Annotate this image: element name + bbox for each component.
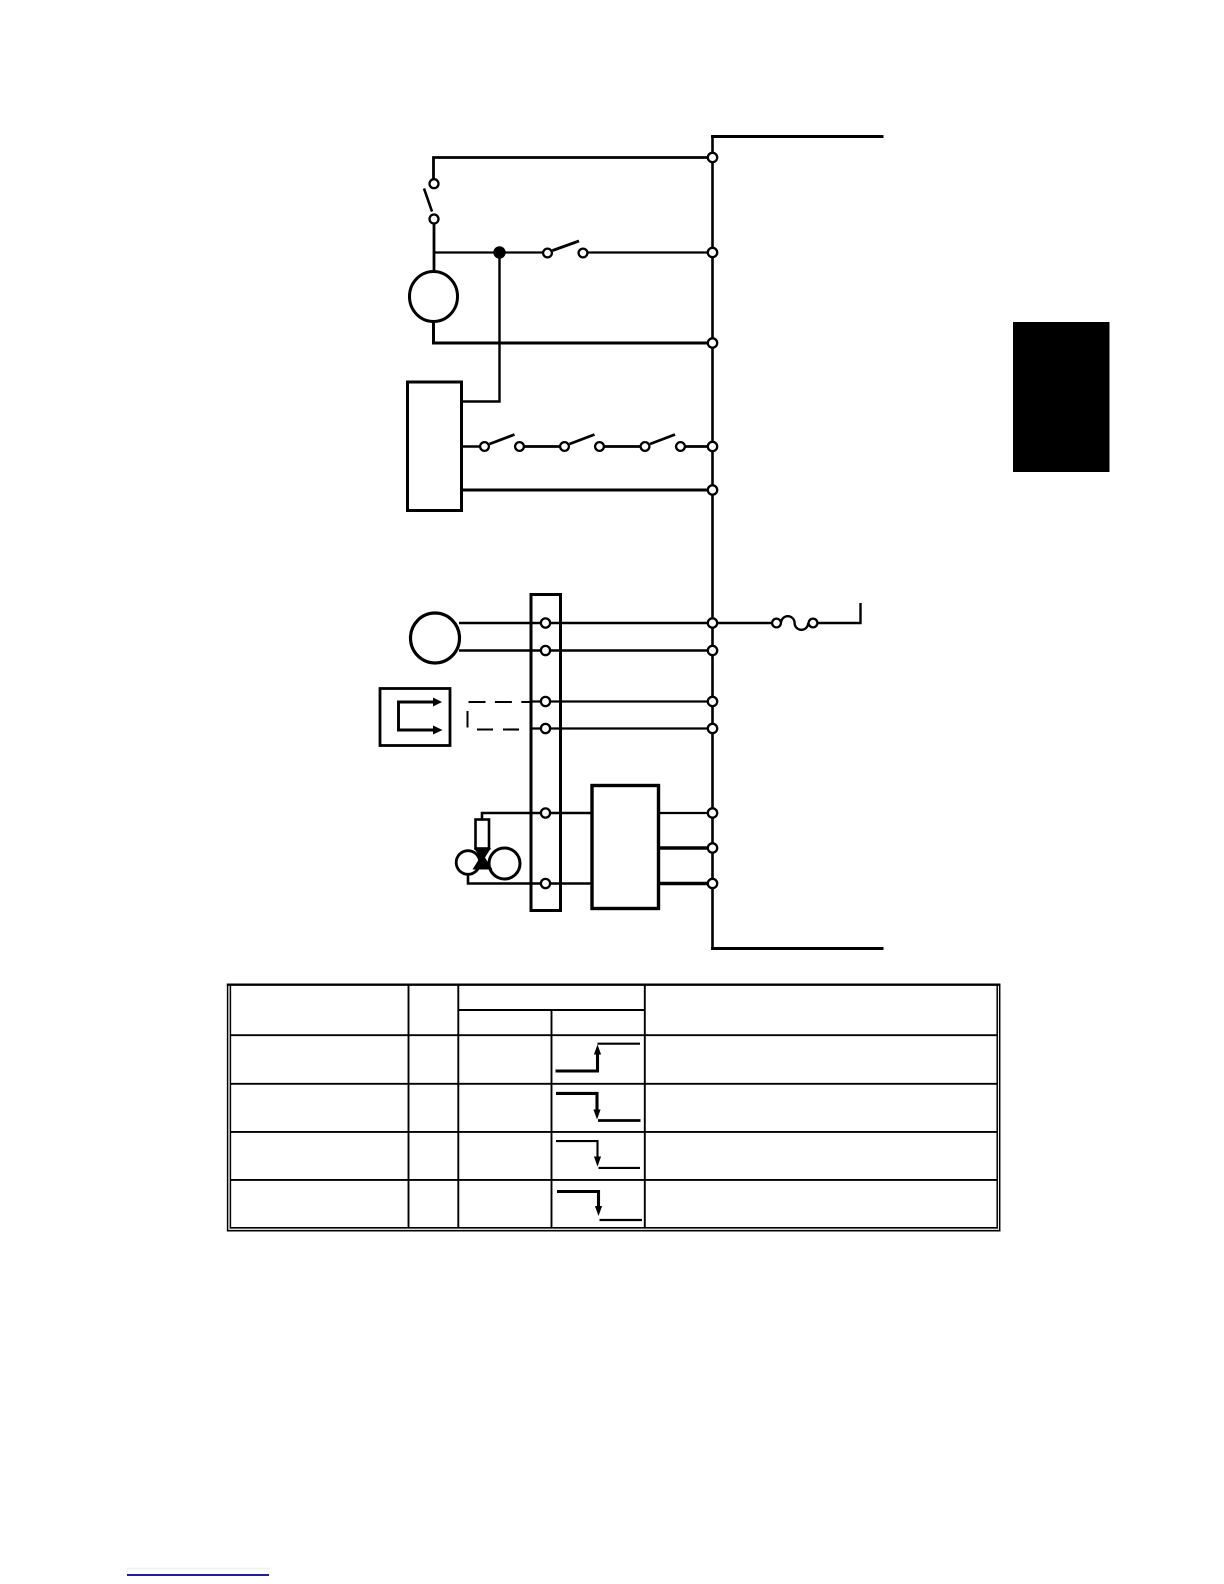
switch S2 contact left	[543, 249, 552, 258]
node bus terminal 8	[708, 697, 717, 706]
switch S3c contact right	[676, 442, 685, 451]
wire motor upper lead with fuse feed	[459, 622, 773, 625]
switch S3b contact left	[560, 442, 569, 451]
node bus terminal 3	[708, 338, 717, 347]
wire B1 bottom to bus	[462, 489, 713, 492]
direction indicator box	[380, 689, 450, 746]
switch S3b contact right	[595, 442, 604, 451]
direction indicator arrows	[399, 702, 435, 730]
wire S3a to S3b	[524, 445, 560, 448]
terminal TB-6	[541, 879, 550, 888]
switch S3a contact right	[515, 442, 524, 451]
table subheader line	[458, 1009, 645, 1011]
wire junction row right	[588, 251, 713, 253]
waveform falling edge row 2	[556, 1093, 597, 1110]
node bus terminal 11	[708, 843, 717, 852]
table row line 2	[230, 1083, 997, 1085]
wire sensor lower to bus	[531, 727, 713, 729]
pump right gear circle	[489, 848, 520, 879]
wire lamp top feed	[434, 158, 713, 179]
node bus terminal 1	[708, 153, 717, 162]
fuse F1 squiggle	[781, 616, 808, 630]
wire fuse to stub	[818, 603, 861, 623]
switch S1 blade	[424, 189, 432, 212]
node bus terminal 2	[708, 248, 717, 257]
wire sensor upper to bus	[531, 700, 713, 702]
box B2	[592, 786, 659, 909]
footer faint rule	[127, 1567, 270, 1569]
wire motor lower lead	[459, 649, 713, 652]
fuse F1 contact right	[809, 619, 818, 628]
wire pump top feed	[482, 813, 592, 820]
table left border outer	[227, 984, 229, 1232]
wire B2 out 2	[659, 846, 713, 849]
table bottom border outer	[227, 1230, 1001, 1232]
node bus terminal 4	[708, 442, 717, 451]
switch S1 contact top	[430, 179, 439, 188]
node bus terminal 6	[708, 618, 717, 627]
box B1	[408, 382, 462, 511]
switch S3c blade	[650, 435, 675, 445]
pump left gear circle	[456, 851, 480, 875]
wire junction row left	[434, 251, 544, 253]
pump valve cone lower	[473, 854, 493, 870]
fuse F1 contact left	[772, 619, 781, 628]
node bus terminal 5	[708, 485, 717, 494]
pump valve cone upper	[474, 848, 491, 862]
node bus terminal 7	[708, 646, 717, 655]
wire B2 out 1	[659, 812, 713, 814]
waveform rising edge row 1	[556, 1053, 598, 1071]
wire controller bottom edge	[713, 947, 884, 949]
table right border outer	[999, 984, 1001, 1232]
table right border inner	[996, 984, 998, 1229]
wire B1 to switch row	[462, 445, 481, 447]
table bottom border inner	[230, 1227, 998, 1229]
terminal TB-1	[541, 618, 550, 627]
terminal strip TB	[531, 595, 561, 911]
switch S3b blade	[570, 435, 595, 445]
node junction dot	[493, 246, 505, 258]
lamp L1	[410, 272, 458, 322]
wire controller top edge	[713, 137, 884, 139]
wire S3c to bus	[685, 445, 713, 448]
table column line 1	[408, 985, 410, 1228]
pump cylinder	[476, 820, 490, 849]
waveform falling edge row 3	[556, 1141, 598, 1157]
table row line 4	[230, 1179, 997, 1181]
footer link underline	[127, 1574, 269, 1576]
table left border inner	[229, 984, 231, 1229]
terminal TB-2	[541, 646, 550, 655]
node bus terminal 10	[708, 808, 717, 817]
dashed linkage top	[469, 701, 532, 703]
wire pump bottom return	[468, 875, 592, 884]
switch S2 blade	[553, 241, 580, 251]
switch S3c contact left	[641, 442, 650, 451]
node bus terminal 12	[708, 879, 717, 888]
table column line 4	[644, 985, 646, 1228]
wire main bus vertical	[711, 137, 714, 949]
dashed linkage bottom	[477, 728, 526, 730]
black index tab	[1013, 322, 1110, 472]
waveform falling edge row 4	[557, 1192, 599, 1207]
switch S3a blade	[490, 435, 515, 445]
terminal TB-3	[541, 697, 550, 706]
wire S1 to lamp	[433, 224, 436, 274]
wire B2 out 3	[659, 882, 713, 885]
table column line 2	[457, 985, 459, 1228]
node bus terminal 9	[708, 724, 717, 733]
table column line 3	[551, 1010, 553, 1228]
terminal TB-5	[541, 808, 550, 817]
dashed linkage vertical	[467, 711, 469, 728]
switch S2 contact right	[579, 249, 588, 258]
table top border	[227, 984, 1001, 986]
wire junction dot to box B1	[462, 253, 500, 402]
wire lamp bottom return	[434, 322, 713, 344]
switch S1 contact bottom	[430, 215, 439, 224]
table row line 1	[230, 1034, 997, 1036]
switch S3a contact left	[480, 442, 489, 451]
terminal TB-4	[541, 724, 550, 733]
table row line 3	[230, 1131, 997, 1133]
motor M1	[411, 613, 460, 663]
wire S3b to S3c	[604, 445, 641, 448]
